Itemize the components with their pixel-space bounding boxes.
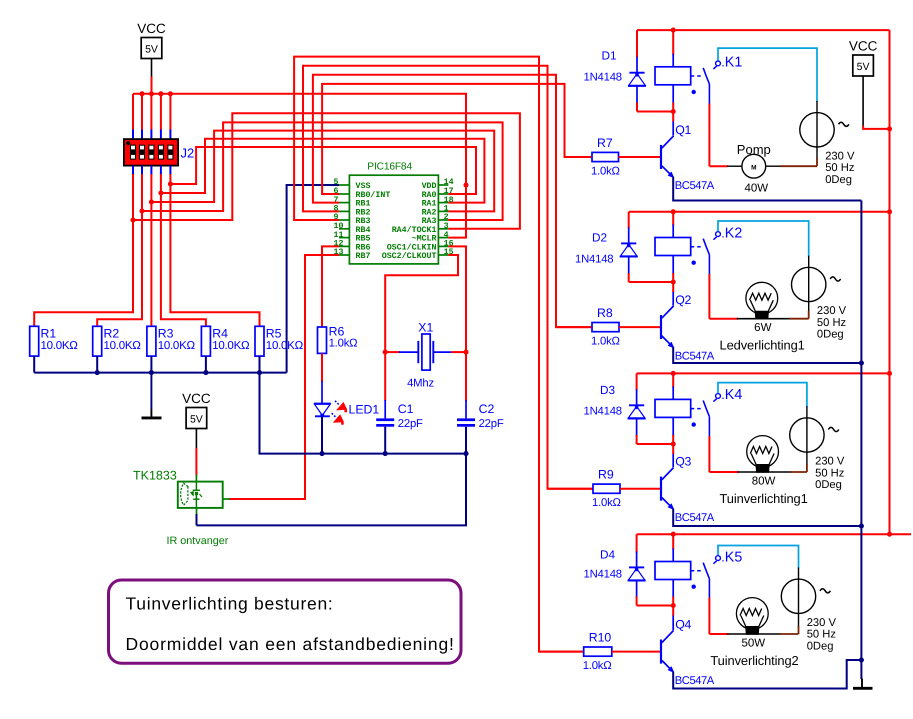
- node VCC bus junction col3: [149, 91, 154, 96]
- pin 18 RA1: [438, 202, 448, 204]
- switch J2 pin-1 dot: [126, 141, 130, 145]
- wire VCC2 lead: [195, 429, 197, 450]
- pin 15 OSC2/CLKOUT: [438, 254, 448, 256]
- svg-text:230 V: 230 V: [825, 150, 855, 162]
- svg-text:5V: 5V: [190, 414, 203, 426]
- node emitter ch4: [859, 657, 864, 662]
- node VCC bus junction col5: [168, 91, 173, 96]
- wire VCC1 lead: [151, 59, 153, 78]
- wire R8 to base: [619, 326, 660, 328]
- pin 9 RB3: [339, 219, 349, 221]
- node col4 junction: [158, 190, 163, 195]
- node relay link dot 4: [692, 585, 696, 589]
- node rail ch4: [887, 532, 892, 537]
- node emitter ch2: [859, 360, 864, 365]
- svg-text:1.0kΩ: 1.0kΩ: [583, 660, 612, 672]
- svg-text:10.0KΩ: 10.0KΩ: [104, 340, 142, 352]
- pin 16 OSC1/CLKIN: [438, 245, 448, 247]
- wire RB7 to IR receiver output: [229, 255, 339, 499]
- svg-text:D4: D4: [600, 548, 616, 562]
- svg-text:Q1: Q1: [675, 123, 691, 137]
- wire AC source bottom lead channel 1: [816, 147, 818, 159]
- wire emitter channel 4: [673, 660, 861, 689]
- svg-text:2: 2: [444, 213, 449, 222]
- svg-text:R7: R7: [597, 136, 613, 150]
- svg-text:6W: 6W: [754, 322, 771, 334]
- pin 14 VDD: [438, 184, 448, 186]
- wire VSS to ground bus: [287, 185, 339, 373]
- svg-text:OSC1/CLKIN: OSC1/CLKIN: [387, 242, 437, 252]
- pin 6 RB0/INT: [339, 193, 349, 195]
- svg-text:50 Hz: 50 Hz: [807, 629, 837, 641]
- wire MCLR to VDD: [448, 185, 466, 238]
- svg-text:RA4/TOCK1: RA4/TOCK1: [392, 225, 437, 235]
- resistor R10 1.0k: [584, 647, 612, 656]
- wire J2 col3 to PIC RA2: [151, 131, 494, 212]
- svg-text:K5: K5: [725, 549, 743, 565]
- svg-text:0Deg: 0Deg: [817, 329, 844, 341]
- svg-text:~MCLR: ~MCLR: [412, 235, 437, 244]
- svg-text:1.0kΩ: 1.0kΩ: [329, 338, 358, 350]
- wire J2 col2 to PIC RA3: [142, 122, 503, 220]
- svg-text:10.0KΩ: 10.0KΩ: [41, 340, 79, 352]
- ir-receiver U2 TK1833: [195, 475, 197, 482]
- node collector junction 2: [671, 279, 676, 284]
- pin 1 RA2: [438, 210, 448, 212]
- svg-text:22pF: 22pF: [398, 418, 423, 430]
- wire J2 col5 to R5: [170, 174, 259, 326]
- wire switch leg channel 2: [708, 255, 710, 275]
- wire J2 col3 to R3: [150, 174, 152, 326]
- svg-text:11: 11: [334, 231, 344, 240]
- svg-text:Doormiddel van een afstandbedi: Doormiddel van een afstandbediening!: [126, 634, 455, 654]
- wire RB3 to R10: [294, 57, 584, 652]
- svg-text:1N4148: 1N4148: [584, 569, 622, 581]
- svg-text:J2: J2: [181, 146, 195, 161]
- pin 4 ~MCLR: [438, 237, 448, 239]
- svg-text:230 V: 230 V: [815, 456, 845, 468]
- wire emitter channel 2: [673, 347, 861, 363]
- wire R6 to LED1: [321, 353, 323, 382]
- node emitter ch3: [859, 523, 864, 528]
- svg-text:LED1: LED1: [349, 403, 380, 417]
- node collector junction 1: [671, 109, 676, 114]
- wire TK1833 output stub: [223, 498, 230, 500]
- svg-text:X1: X1: [418, 321, 433, 335]
- wire VCC bus to VDD: [133, 94, 466, 185]
- pin 3 RA4/TOCK1: [438, 228, 448, 230]
- svg-text:M: M: [751, 165, 756, 172]
- svg-text:K1: K1: [725, 55, 743, 71]
- wire switch to AC source channel 4 (selector): [718, 546, 799, 569]
- node VCC bus junction col4: [158, 91, 163, 96]
- resistor R5 10.0K: [255, 326, 264, 356]
- svg-text:BC547A: BC547A: [675, 512, 715, 524]
- svg-text:K4: K4: [725, 387, 743, 403]
- svg-text:10.0KΩ: 10.0KΩ: [212, 340, 250, 352]
- node rail relay tap 1: [671, 28, 676, 33]
- node bus C1: [383, 451, 388, 456]
- svg-text:1.0kΩ: 1.0kΩ: [591, 336, 620, 348]
- node bus C2: [463, 451, 468, 456]
- pin 8 RB2: [339, 210, 349, 212]
- crystal X1 4Mhz: [417, 341, 419, 363]
- ac-source V channel 3 230V: [790, 418, 824, 452]
- wire J2 col4 to R4: [161, 174, 206, 326]
- diode D4 1N4148: [636, 534, 638, 552]
- led LED1: [314, 403, 331, 405]
- wire OSC2 to crystal left: [385, 255, 458, 352]
- wire J2 col4 to PIC RA1: [161, 139, 485, 203]
- svg-text:10.0KΩ: 10.0KΩ: [158, 340, 196, 352]
- svg-text:0Deg: 0Deg: [807, 641, 834, 653]
- svg-text:RB0/INT: RB0/INT: [356, 190, 391, 200]
- lamp X4 50W: [709, 633, 728, 635]
- svg-text:1.0kΩ: 1.0kΩ: [592, 497, 621, 509]
- svg-text:22pF: 22pF: [479, 418, 504, 430]
- svg-text:10: 10: [334, 222, 344, 231]
- svg-text:3: 3: [444, 222, 449, 231]
- svg-text:VCC: VCC: [137, 21, 166, 36]
- ac-source V channel 4 230V: [781, 579, 815, 613]
- wire AC source bottom lead channel 2: [808, 302, 810, 312]
- svg-text:Tuinverlichting besturen:: Tuinverlichting besturen:: [126, 594, 334, 614]
- svg-text:1N4148: 1N4148: [575, 253, 613, 265]
- resistor R4 10.0K: [201, 326, 210, 356]
- svg-text:Pomp: Pomp: [737, 142, 771, 157]
- wire VCC rail right edge: [889, 30, 891, 534]
- node VCC bus junction col2: [139, 91, 144, 96]
- svg-text:50 Hz: 50 Hz: [815, 467, 845, 479]
- svg-text:4Mhz: 4Mhz: [407, 377, 434, 389]
- svg-text:50 Hz: 50 Hz: [825, 162, 855, 174]
- node rail ch3: [887, 371, 892, 376]
- wire J2 col1 to PIC RA4: [133, 113, 520, 229]
- svg-text:D2: D2: [592, 231, 607, 245]
- relay contact K4 switch: [716, 556, 721, 561]
- svg-text:50W: 50W: [741, 637, 765, 649]
- svg-text:Tuinverlichting1: Tuinverlichting1: [720, 491, 808, 506]
- wire RB0 to R7: [322, 84, 592, 194]
- svg-text:R3: R3: [158, 326, 174, 340]
- wire switch to AC source channel 2 (selector): [718, 221, 809, 257]
- svg-text:1.0kΩ: 1.0kΩ: [591, 165, 620, 177]
- wire crystal left node leads: [385, 351, 400, 353]
- wire J2 col1 to R1: [34, 174, 133, 326]
- svg-text:RB7: RB7: [356, 252, 371, 261]
- svg-text:1N4148: 1N4148: [584, 71, 622, 83]
- wire R10 to base: [612, 651, 660, 653]
- svg-text:VCC: VCC: [849, 39, 878, 54]
- wire diode to collector node channel 1: [637, 111, 673, 113]
- node col5 junction: [168, 181, 173, 186]
- capacitor C1 22pF: [384, 352, 386, 401]
- svg-text:1N4148: 1N4148: [584, 406, 622, 418]
- transistor Q2 BC547A: [660, 315, 662, 339]
- wire switch leg channel 4: [708, 579, 710, 599]
- node rail relay tap 4: [671, 532, 676, 537]
- relay coil K4: [672, 534, 674, 549]
- svg-text:R2: R2: [104, 326, 120, 340]
- wire R7 to base: [619, 156, 661, 158]
- node VCC3 tap: [887, 126, 892, 131]
- node bus R4: [203, 370, 208, 375]
- svg-text:VCC: VCC: [182, 391, 211, 406]
- svg-text:80W: 80W: [752, 475, 776, 487]
- ground (right): [861, 679, 863, 688]
- led LED1 light arrow 1: [335, 401, 340, 406]
- svg-text:BC547A: BC547A: [675, 180, 715, 192]
- svg-text:Q4: Q4: [675, 618, 691, 632]
- node rail relay tap 2: [671, 209, 676, 214]
- svg-text:C2: C2: [479, 402, 495, 416]
- ground (left): [150, 373, 152, 411]
- switch J2 pin stubs bottom: [132, 166, 134, 175]
- node bus R3: [149, 370, 154, 375]
- wire J2 col5 to PIC RA0: [170, 147, 476, 194]
- node relay link dot 3: [692, 422, 696, 426]
- pin 10 RB4: [339, 228, 349, 230]
- relay coil K2: [672, 212, 674, 226]
- svg-text:14: 14: [444, 178, 454, 187]
- wire AC source bottom lead channel 3: [806, 452, 808, 465]
- svg-text:RB5: RB5: [356, 235, 371, 244]
- diode D3 1N4148: [636, 373, 638, 390]
- svg-text:RA1: RA1: [422, 200, 437, 209]
- transistor Q1 BC547A: [660, 145, 662, 169]
- wire AC source bottom lead channel 4: [798, 614, 800, 628]
- resistor R6 1.0k: [318, 327, 327, 353]
- transistor Q4 BC547A: [660, 640, 662, 664]
- svg-text:OSC2/CLKOUT: OSC2/CLKOUT: [382, 251, 437, 261]
- wire channel 1 top rail: [637, 29, 890, 31]
- wire R5 node down to lower bus: [197, 373, 467, 526]
- svg-text:Q3: Q3: [675, 455, 691, 469]
- svg-text:D3: D3: [600, 383, 616, 397]
- wire RB2 to R9: [303, 66, 593, 489]
- svg-text:18: 18: [444, 196, 454, 205]
- relay contact K3 switch: [716, 394, 721, 399]
- wire VCC3 lead: [862, 76, 864, 127]
- wire emitter channel 1: [673, 177, 861, 200]
- node col1 junction: [130, 217, 135, 222]
- ic U1 PIC16F84 body: [349, 175, 438, 264]
- wire resistor ground bus: [34, 372, 286, 374]
- svg-text:RA3: RA3: [422, 217, 437, 226]
- svg-text:VDD: VDD: [422, 182, 437, 191]
- svg-text:R1: R1: [41, 326, 57, 340]
- svg-text:R9: R9: [598, 468, 614, 482]
- wire base resistor input channel 1: [564, 84, 566, 157]
- node col3 junction: [149, 199, 154, 204]
- wire base resistor input channel 4: [538, 57, 540, 652]
- node relay link dot 1: [692, 90, 696, 94]
- wire diode to collector node channel 4: [637, 605, 674, 607]
- ac-source V channel 1 230V: [800, 113, 834, 147]
- svg-text:R4: R4: [212, 326, 228, 340]
- wire base resistor input channel 2: [555, 75, 557, 327]
- pin 7 RB1: [339, 202, 349, 204]
- svg-text:IR ontvanger: IR ontvanger: [167, 535, 229, 547]
- svg-text:0Deg: 0Deg: [825, 174, 852, 186]
- wire emitter channel 3: [673, 509, 861, 526]
- wire diode to collector node channel 2: [629, 281, 674, 283]
- node relay link dot 2: [692, 261, 696, 265]
- switch J2 pin stubs top: [132, 130, 134, 140]
- lamp X3 80W: [709, 471, 738, 473]
- wire base resistor input channel 3: [547, 66, 549, 489]
- node col2 junction: [139, 208, 144, 213]
- pin 13 RB7: [339, 254, 349, 256]
- transistor Q3 BC547A: [660, 477, 662, 501]
- relay coil K3: [672, 373, 674, 387]
- svg-text:Q2: Q2: [675, 293, 691, 307]
- svg-text:230 V: 230 V: [817, 305, 847, 317]
- svg-text:230 V: 230 V: [807, 617, 837, 629]
- lamp X2 6W: [709, 318, 737, 320]
- svg-text:Ledverlichting1: Ledverlichting1: [720, 338, 805, 353]
- svg-text:K2: K2: [725, 225, 743, 241]
- node collector junction 4: [671, 603, 676, 608]
- capacitor C2 22pF: [465, 352, 467, 401]
- svg-text:Tuinverlichting2: Tuinverlichting2: [710, 653, 798, 668]
- wire RB1 to R8: [313, 75, 592, 327]
- svg-text:TK1833: TK1833: [133, 468, 177, 482]
- node rail ch2: [887, 209, 892, 214]
- resistor R7 1.0k: [592, 152, 619, 161]
- svg-text:50 Hz: 50 Hz: [817, 317, 847, 329]
- node bus R5: [257, 370, 262, 375]
- pin 17 RA0: [438, 193, 448, 195]
- relay contact K1 switch: [716, 61, 721, 66]
- svg-text:BC547A: BC547A: [675, 675, 715, 687]
- wire OSC1 to crystal right: [448, 246, 466, 352]
- svg-text:0Deg: 0Deg: [815, 479, 842, 491]
- svg-text:RB3: RB3: [356, 217, 371, 226]
- pin 12 RB6: [339, 245, 349, 247]
- wire TK1833 ground stub: [196, 508, 198, 515]
- wire diode to collector node channel 3: [637, 443, 674, 445]
- wire LED1 cathode to bus: [321, 416, 323, 453]
- node crystal left: [383, 350, 388, 355]
- resistor R9 1.0k: [593, 484, 620, 493]
- resistor R3 10.0K: [147, 326, 156, 356]
- svg-text:R5: R5: [266, 326, 282, 340]
- wire channel 3 top rail: [637, 372, 890, 374]
- pin 11 RB5: [339, 237, 349, 239]
- wire J2 column feeds from VCC bus: [132, 94, 134, 130]
- svg-text:4: 4: [444, 231, 449, 240]
- svg-text:PIC16F84: PIC16F84: [367, 162, 412, 173]
- svg-text:R6: R6: [329, 324, 345, 338]
- diode D2 1N4148: [628, 212, 630, 229]
- svg-text:RB1: RB1: [356, 200, 371, 209]
- svg-text:R10: R10: [589, 631, 612, 645]
- node collector junction 3: [671, 441, 676, 446]
- node bus LED1: [319, 451, 324, 456]
- wire channel 2 top rail: [629, 211, 890, 213]
- wire switch leg channel 3: [708, 417, 710, 437]
- diode D1 1N4148: [636, 30, 638, 58]
- wire R9 to base: [620, 488, 660, 490]
- svg-text:5V: 5V: [145, 44, 158, 56]
- svg-text:C1: C1: [398, 402, 414, 416]
- led LED1 light arrow 2: [332, 413, 337, 418]
- wire channel 4 top rail: [637, 533, 911, 535]
- wire switch leg channel 1: [708, 84, 710, 105]
- svg-text:5V: 5V: [857, 61, 870, 73]
- wire RB6 to R6: [322, 246, 339, 327]
- wire crystal right node leads: [433, 351, 452, 353]
- wire switch to AC source channel 1 (selector): [718, 48, 817, 102]
- wire switch to AC source channel 3 (selector): [718, 383, 807, 408]
- node bus R2: [95, 370, 100, 375]
- node VDD junction: [463, 182, 468, 187]
- svg-text:40W: 40W: [745, 182, 769, 194]
- switch J2 body: [124, 139, 178, 166]
- svg-text:RB4: RB4: [356, 226, 371, 235]
- pin 5 VSS: [339, 184, 349, 186]
- svg-text:BC547A: BC547A: [675, 350, 715, 362]
- wire emitter ground rail: [860, 201, 862, 680]
- svg-text:10.0KΩ: 10.0KΩ: [266, 340, 304, 352]
- svg-text:VSS: VSS: [356, 182, 371, 191]
- relay coil K1: [672, 30, 674, 55]
- relay contact K2 switch: [716, 232, 721, 237]
- resistor R1 10.0K: [30, 326, 39, 356]
- svg-text:D1: D1: [602, 49, 617, 63]
- node crystal right: [463, 350, 468, 355]
- node rail relay tap 3: [671, 371, 676, 376]
- ac-source V channel 2 230V: [792, 267, 826, 301]
- switch J2 levers: [130, 145, 136, 160]
- wire J2 col2 to R2: [97, 174, 142, 326]
- resistor R2 10.0K: [93, 326, 102, 356]
- motor M1 Pomp 40W: [709, 165, 727, 167]
- resistor R8 1.0k: [592, 323, 619, 332]
- svg-text:R8: R8: [597, 306, 613, 320]
- note text box: [109, 580, 462, 663]
- pin 2 RA3: [438, 219, 448, 221]
